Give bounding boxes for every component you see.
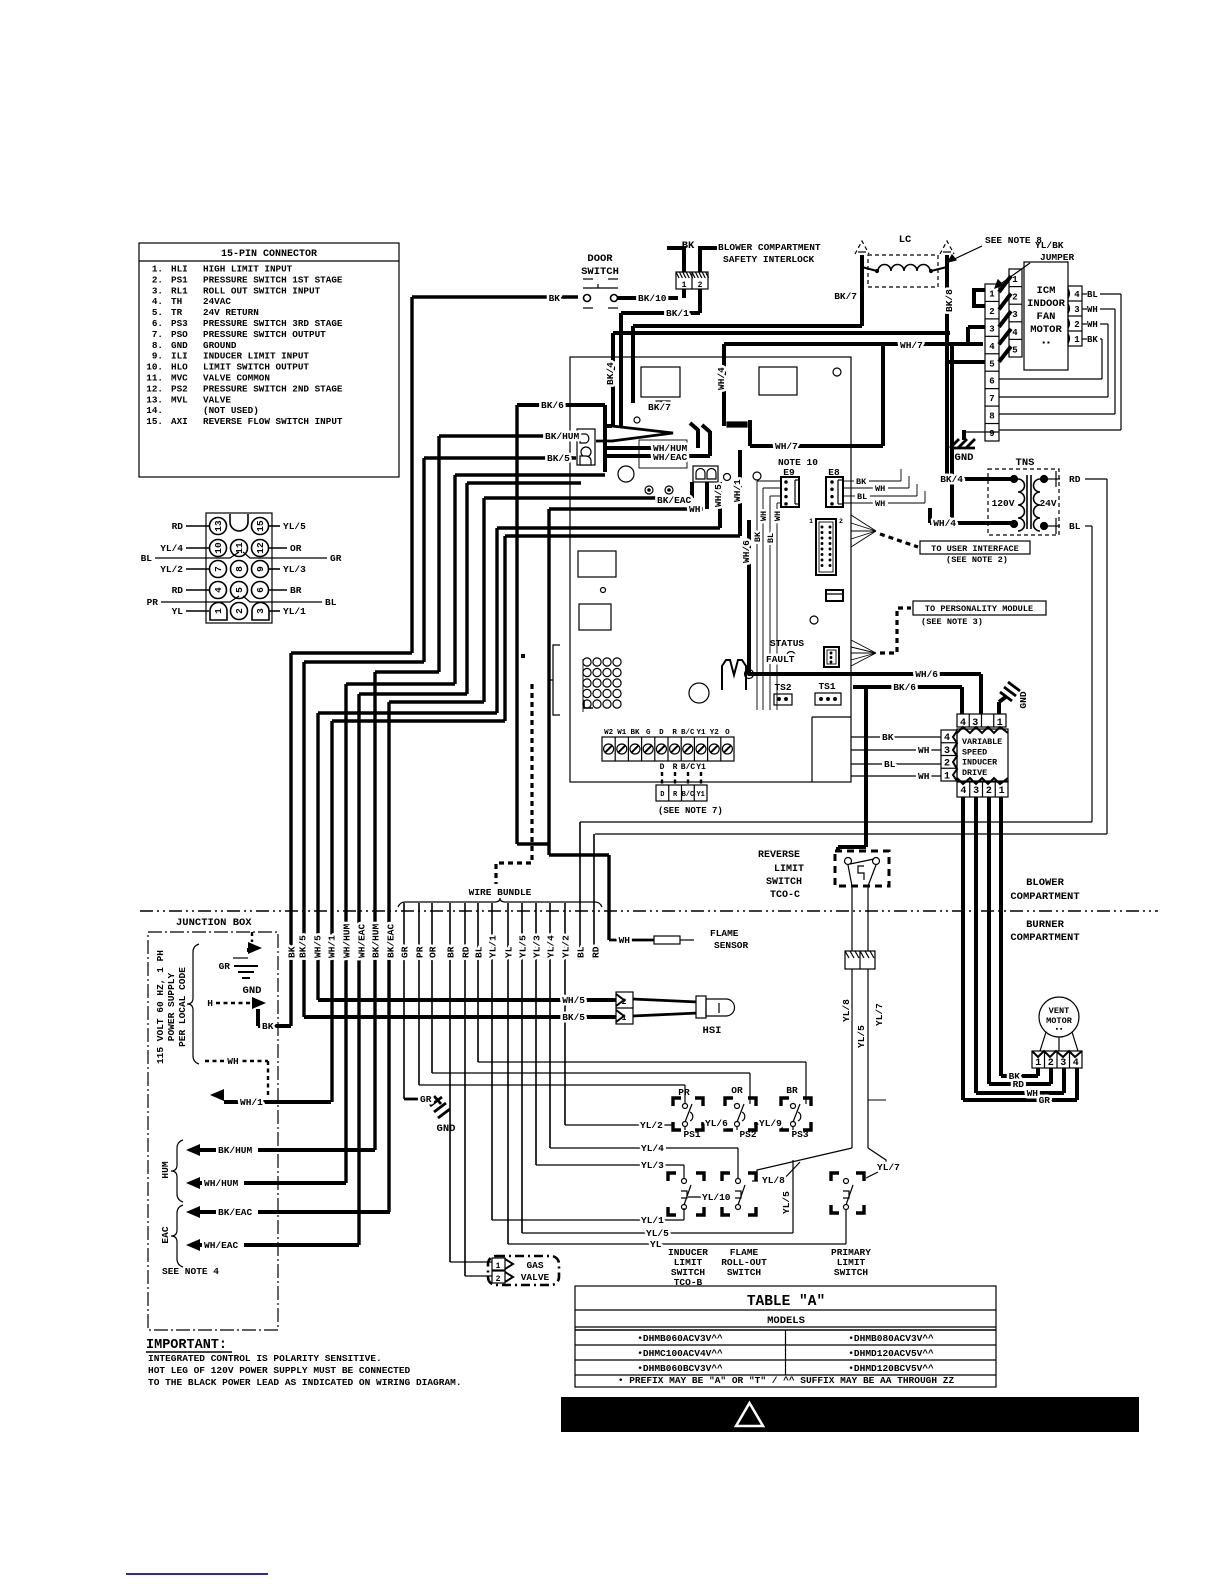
svg-text:WH/5: WH/5	[713, 484, 724, 507]
svg-text:TCO-C: TCO-C	[770, 890, 800, 901]
svg-text:WH/4: WH/4	[716, 367, 727, 390]
svg-text:•DHMC100ACV4V^^: •DHMC100ACV4V^^	[637, 1348, 723, 1359]
svg-text:TH: TH	[171, 296, 182, 307]
svg-text:WH: WH	[918, 745, 930, 756]
svg-text:GND: GND	[243, 985, 262, 997]
svg-text:YL/5: YL/5	[518, 935, 529, 958]
svg-text:GAS: GAS	[526, 1260, 543, 1271]
svg-text:SEE NOTE 4: SEE NOTE 4	[162, 1266, 219, 1277]
svg-text:1: 1	[682, 281, 687, 290]
svg-text:COMPARTMENT: COMPARTMENT	[1010, 932, 1079, 944]
svg-text:SWITCH: SWITCH	[581, 266, 619, 278]
svg-text:WH: WH	[773, 511, 783, 521]
svg-text:•DHMD120ACV5V^^: •DHMD120ACV5V^^	[848, 1348, 934, 1359]
svg-text:3: 3	[255, 608, 266, 614]
svg-text:WH/EAC: WH/EAC	[653, 452, 688, 463]
svg-text:GND: GND	[171, 340, 188, 351]
svg-text:SWITCH: SWITCH	[834, 1267, 869, 1278]
svg-text:HUM: HUM	[160, 1161, 171, 1178]
svg-text:WH/1: WH/1	[732, 479, 743, 502]
svg-text:FAULT: FAULT	[766, 654, 795, 665]
svg-text:13: 13	[213, 520, 224, 532]
svg-text:WH/1: WH/1	[327, 935, 338, 958]
svg-text:9: 9	[989, 429, 994, 439]
svg-text:▪▪: ▪▪	[1041, 339, 1051, 348]
svg-text:8: 8	[989, 412, 994, 422]
svg-text:YL/1: YL/1	[488, 935, 499, 958]
svg-text:PR: PR	[147, 597, 159, 608]
svg-text:BLOWER: BLOWER	[1026, 877, 1065, 889]
svg-text:WH/HUM: WH/HUM	[204, 1178, 239, 1189]
svg-text:(NOT USED): (NOT USED)	[203, 405, 259, 416]
svg-text:GND: GND	[955, 452, 974, 464]
svg-text:1: 1	[997, 718, 1003, 729]
svg-text:YL/7: YL/7	[877, 1162, 900, 1173]
svg-text:RD: RD	[172, 585, 184, 596]
svg-text:BK/EAC: BK/EAC	[657, 495, 692, 506]
svg-text:REVERSE FLOW SWITCH INPUT: REVERSE FLOW SWITCH INPUT	[203, 416, 343, 427]
svg-text:2: 2	[234, 608, 245, 614]
svg-text:(SEE NOTE 2): (SEE NOTE 2)	[946, 555, 1008, 565]
svg-text:PRESSURE SWITCH 3RD STAGE: PRESSURE SWITCH 3RD STAGE	[203, 318, 343, 329]
svg-text:VALVE: VALVE	[203, 394, 231, 405]
svg-text:4: 4	[960, 718, 966, 729]
svg-text:BL: BL	[576, 946, 587, 958]
svg-text:BK/5: BK/5	[562, 1012, 585, 1023]
svg-text:1.: 1.	[152, 264, 163, 275]
svg-text:GR: GR	[219, 961, 231, 972]
svg-text:BK/5: BK/5	[298, 935, 309, 958]
svg-text:YL/5: YL/5	[856, 1025, 867, 1048]
svg-text:YL/5: YL/5	[781, 1191, 792, 1214]
svg-text:24V RETURN: 24V RETURN	[203, 307, 259, 318]
svg-text:15-PIN CONNECTOR: 15-PIN CONNECTOR	[221, 249, 317, 260]
svg-text:BK/4: BK/4	[605, 362, 616, 385]
svg-text:LIMIT SWITCH OUTPUT: LIMIT SWITCH OUTPUT	[203, 362, 309, 373]
svg-text:B/C: B/C	[681, 729, 695, 737]
svg-text:YL/9: YL/9	[759, 1118, 782, 1129]
svg-text:6: 6	[255, 587, 266, 593]
svg-text:Y1: Y1	[696, 729, 706, 737]
svg-text:WH: WH	[875, 484, 885, 494]
svg-text:PR: PR	[678, 1087, 690, 1098]
svg-text:3: 3	[973, 786, 979, 797]
svg-text:YL/8: YL/8	[762, 1175, 785, 1186]
svg-text:GROUND: GROUND	[203, 340, 237, 351]
svg-text:24VAC: 24VAC	[203, 296, 231, 307]
svg-text:SEE NOTE 8: SEE NOTE 8	[985, 235, 1042, 246]
svg-text:4: 4	[1074, 290, 1080, 300]
svg-text:Y1: Y1	[696, 791, 704, 799]
svg-text:PS2: PS2	[171, 383, 188, 394]
svg-text:7: 7	[213, 566, 224, 572]
svg-text:YL/2: YL/2	[561, 935, 572, 958]
svg-text:COMPARTMENT: COMPARTMENT	[1010, 891, 1079, 903]
svg-text:GR: GR	[330, 553, 342, 564]
svg-text:BK: BK	[753, 531, 763, 542]
svg-text:120V: 120V	[992, 498, 1015, 509]
svg-text:WH/EAC: WH/EAC	[357, 923, 368, 958]
svg-text:YL/5: YL/5	[283, 521, 306, 532]
svg-text:PRESSURE SWITCH 2ND STAGE: PRESSURE SWITCH 2ND STAGE	[203, 383, 343, 394]
svg-text:D: D	[660, 791, 664, 799]
svg-text:GR: GR	[420, 1094, 432, 1105]
svg-text:VALVE: VALVE	[521, 1272, 550, 1283]
svg-text:3.: 3.	[152, 285, 163, 296]
svg-text:BK/EAC: BK/EAC	[386, 923, 397, 958]
svg-text:BL: BL	[325, 597, 337, 608]
svg-text:WH/7: WH/7	[900, 340, 923, 351]
svg-text:PRESSURE SWITCH OUTPUT: PRESSURE SWITCH OUTPUT	[203, 329, 326, 340]
svg-text:YL/3: YL/3	[641, 1160, 664, 1171]
svg-text:OR: OR	[731, 1085, 743, 1096]
svg-text:6.: 6.	[152, 318, 163, 329]
svg-text:BK/10: BK/10	[638, 293, 667, 304]
svg-text:WH/7: WH/7	[775, 441, 798, 452]
svg-text:PS1: PS1	[171, 274, 188, 285]
svg-text:YL/4: YL/4	[160, 543, 183, 554]
svg-text:TS2: TS2	[774, 682, 791, 693]
svg-text:BR: BR	[290, 585, 302, 596]
svg-text:HSI: HSI	[703, 1025, 722, 1037]
svg-text:BK: BK	[262, 1021, 274, 1032]
svg-text:4: 4	[989, 342, 995, 352]
svg-text:1: 1	[622, 1014, 627, 1023]
svg-text:TS1: TS1	[818, 681, 835, 692]
svg-text:5: 5	[234, 587, 245, 593]
svg-text:BL: BL	[766, 533, 776, 543]
svg-text:9.: 9.	[152, 351, 163, 362]
svg-text:PRESSURE SWITCH 1ST STAGE: PRESSURE SWITCH 1ST STAGE	[203, 274, 343, 285]
svg-text:ROLL OUT SWITCH INPUT: ROLL OUT SWITCH INPUT	[203, 285, 321, 296]
svg-text:BL: BL	[474, 946, 485, 958]
svg-text:YL/7: YL/7	[874, 1003, 885, 1026]
svg-text:WH/EAC: WH/EAC	[204, 1240, 239, 1251]
svg-text:INTEGRATED CONTROL IS POLARITY: INTEGRATED CONTROL IS POLARITY SENSITIVE…	[148, 1353, 382, 1364]
svg-text:BK: BK	[549, 293, 561, 304]
svg-text:2: 2	[989, 307, 994, 317]
svg-text:(SEE NOTE 3): (SEE NOTE 3)	[921, 617, 983, 627]
svg-text:WH/6: WH/6	[741, 540, 752, 563]
svg-text:BK: BK	[630, 729, 640, 737]
svg-text:MVL: MVL	[171, 394, 188, 405]
svg-text:FAN: FAN	[1037, 311, 1056, 323]
svg-text:Y1: Y1	[696, 763, 706, 772]
svg-text:JUMPER: JUMPER	[1040, 252, 1075, 263]
svg-text:BL: BL	[1087, 290, 1098, 300]
svg-text:4: 4	[1012, 328, 1018, 338]
svg-text:B/C: B/C	[682, 791, 695, 799]
svg-text:MOTOR: MOTOR	[1030, 324, 1062, 336]
svg-text:IMPORTANT:: IMPORTANT:	[146, 1338, 227, 1353]
svg-text:2: 2	[1012, 293, 1017, 303]
svg-text:WH: WH	[619, 935, 631, 946]
svg-text:WH: WH	[918, 771, 930, 782]
svg-text:PS2: PS2	[739, 1129, 756, 1140]
svg-text:2: 2	[698, 281, 703, 290]
svg-text:BR: BR	[446, 946, 457, 958]
svg-text:TO THE BLACK POWER LEAD AS IND: TO THE BLACK POWER LEAD AS INDICATED ON …	[148, 1377, 462, 1388]
svg-text:MODELS: MODELS	[767, 1315, 805, 1327]
svg-text:•DHMD120BCV5V^^: •DHMD120BCV5V^^	[848, 1363, 934, 1374]
svg-text:W2: W2	[604, 729, 614, 737]
svg-text:HLI: HLI	[171, 264, 188, 275]
svg-text:12.: 12.	[146, 383, 163, 394]
svg-text:1: 1	[999, 786, 1005, 797]
svg-text:TO USER INTERFACE: TO USER INTERFACE	[931, 544, 1019, 554]
svg-text:3: 3	[1060, 1058, 1066, 1069]
svg-text:BK/6: BK/6	[893, 682, 916, 693]
svg-text:4: 4	[960, 786, 966, 797]
svg-text:115 VOLT 60 HZ, 1 PH: 115 VOLT 60 HZ, 1 PH	[155, 950, 166, 1064]
svg-text:3: 3	[972, 718, 978, 729]
svg-text:GND: GND	[1018, 691, 1029, 708]
svg-text:BK: BK	[882, 732, 894, 743]
svg-text:BK/HUM: BK/HUM	[545, 431, 580, 442]
svg-text:BK/1: BK/1	[666, 308, 689, 319]
svg-text:3: 3	[1074, 305, 1079, 315]
svg-text:YL/2: YL/2	[160, 564, 183, 575]
svg-text:11: 11	[234, 542, 245, 554]
svg-text:JUNCTION BOX: JUNCTION BOX	[176, 917, 252, 929]
svg-text:HIGH LIMIT INPUT: HIGH LIMIT INPUT	[203, 264, 293, 275]
svg-text:15.: 15.	[146, 416, 163, 427]
svg-text:TCO-B: TCO-B	[674, 1277, 703, 1288]
svg-text:YL/3: YL/3	[283, 564, 306, 575]
svg-text:YL: YL	[172, 606, 184, 617]
svg-text:GR: GR	[1039, 1095, 1051, 1106]
svg-text:BL: BL	[141, 553, 153, 564]
svg-text:TR: TR	[171, 307, 183, 318]
svg-text:WH/6: WH/6	[915, 669, 938, 680]
svg-text:SAFETY INTERLOCK: SAFETY INTERLOCK	[723, 254, 815, 265]
svg-text:YL/2: YL/2	[640, 1120, 663, 1131]
svg-text:RD: RD	[591, 946, 602, 958]
svg-text:WH/HUM: WH/HUM	[342, 923, 353, 958]
svg-text:HLO: HLO	[171, 362, 188, 373]
svg-text:2: 2	[1048, 1058, 1054, 1069]
svg-text:8: 8	[234, 566, 245, 572]
svg-text:E9: E9	[783, 467, 795, 478]
svg-text:SENSOR: SENSOR	[714, 940, 749, 951]
svg-text:D: D	[659, 729, 664, 737]
svg-text:15: 15	[255, 520, 266, 532]
svg-text:1: 1	[496, 1262, 501, 1271]
svg-text:BK/4: BK/4	[940, 474, 963, 485]
svg-text:3: 3	[1012, 310, 1017, 320]
svg-text:VARIABLE: VARIABLE	[962, 737, 1002, 747]
svg-text:1: 1	[213, 608, 224, 614]
svg-text:EAC: EAC	[160, 1226, 171, 1243]
svg-text:PS1: PS1	[683, 1129, 700, 1140]
svg-text:YL/3: YL/3	[532, 935, 543, 958]
svg-text:STATUS: STATUS	[770, 638, 805, 649]
svg-text:HOT LEG OF 120V POWER SUPPLY M: HOT LEG OF 120V POWER SUPPLY MUST BE CON…	[148, 1365, 411, 1376]
svg-text:BK: BK	[856, 477, 867, 487]
svg-text:BR: BR	[786, 1085, 798, 1096]
svg-text:AXI: AXI	[171, 416, 188, 427]
svg-text:LIMIT: LIMIT	[774, 864, 804, 875]
svg-text:YL: YL	[650, 1239, 662, 1250]
svg-text:2: 2	[622, 998, 627, 1007]
svg-text:MOTOR: MOTOR	[1046, 1016, 1073, 1026]
svg-text:YL: YL	[504, 946, 515, 958]
svg-text:INDOOR: INDOOR	[1027, 298, 1066, 310]
svg-text:YL/4: YL/4	[546, 935, 557, 958]
svg-text:•DHMB060BCV3V^^: •DHMB060BCV3V^^	[637, 1363, 723, 1374]
svg-text:WH: WH	[759, 511, 769, 521]
svg-text:E8: E8	[828, 467, 840, 478]
svg-text:DOOR: DOOR	[587, 253, 613, 265]
svg-text:2: 2	[986, 786, 992, 797]
svg-text:5.: 5.	[152, 307, 163, 318]
svg-text:WH: WH	[227, 1056, 239, 1067]
svg-text:GND: GND	[437, 1123, 456, 1135]
svg-text:YL/BK: YL/BK	[1035, 240, 1064, 251]
svg-text:BK/HUM: BK/HUM	[371, 923, 382, 958]
svg-text:WH: WH	[1087, 320, 1098, 330]
svg-text:2: 2	[944, 759, 950, 770]
svg-text:BL: BL	[1069, 521, 1081, 532]
svg-text:BLOWER COMPARTMENT: BLOWER COMPARTMENT	[718, 242, 821, 253]
svg-text:BK/EAC: BK/EAC	[218, 1207, 253, 1218]
svg-text:9: 9	[255, 566, 266, 572]
svg-text:5: 5	[989, 359, 994, 369]
svg-text:MVC: MVC	[171, 373, 188, 384]
svg-text:B/C: B/C	[681, 763, 696, 772]
svg-text:TNS: TNS	[1016, 457, 1035, 469]
svg-text:2: 2	[496, 1275, 501, 1284]
svg-text:1: 1	[1074, 335, 1080, 345]
svg-text:BL: BL	[884, 759, 896, 770]
svg-text:2: 2	[839, 518, 843, 525]
svg-text:REVERSE: REVERSE	[758, 850, 800, 861]
svg-text:ICM: ICM	[1037, 285, 1056, 297]
svg-text:R: R	[673, 763, 678, 772]
svg-text:3: 3	[944, 746, 950, 757]
svg-text:BK: BK	[682, 240, 695, 252]
svg-text:WH: WH	[1027, 1088, 1039, 1099]
svg-text:OR: OR	[290, 543, 302, 554]
svg-text:LC: LC	[899, 234, 912, 246]
svg-text:1: 1	[989, 290, 995, 300]
svg-text:PSO: PSO	[171, 329, 188, 340]
svg-text:10.: 10.	[146, 362, 163, 373]
svg-text:RL1: RL1	[171, 285, 188, 296]
svg-text:WH/4: WH/4	[933, 518, 956, 529]
svg-text:RD: RD	[461, 946, 472, 958]
svg-text:11.: 11.	[146, 373, 163, 384]
svg-text:BL: BL	[857, 492, 867, 502]
svg-text:RD: RD	[1069, 474, 1081, 485]
svg-text:WIRE BUNDLE: WIRE BUNDLE	[469, 887, 532, 898]
svg-text:8.: 8.	[152, 340, 163, 351]
svg-text:7: 7	[989, 394, 994, 404]
svg-text:1: 1	[944, 771, 950, 782]
svg-text:13.: 13.	[146, 394, 163, 405]
svg-text:2: 2	[1074, 320, 1079, 330]
svg-text:1: 1	[1035, 1058, 1041, 1069]
svg-text:H: H	[207, 998, 213, 1009]
svg-text:W1: W1	[617, 729, 627, 737]
svg-text:O: O	[725, 729, 730, 737]
svg-text:1: 1	[809, 518, 813, 525]
svg-text:4.: 4.	[152, 296, 163, 307]
svg-text:12: 12	[255, 542, 266, 554]
svg-text:(SEE NOTE 7): (SEE NOTE 7)	[658, 806, 723, 816]
svg-text:BK: BK	[1087, 335, 1098, 345]
svg-text:5: 5	[1012, 345, 1017, 355]
svg-text:SWITCH: SWITCH	[727, 1267, 762, 1278]
svg-text:BK/7: BK/7	[648, 402, 671, 413]
svg-text:ILI: ILI	[171, 351, 188, 362]
svg-text:WH: WH	[875, 499, 885, 509]
svg-text:BK/8: BK/8	[944, 289, 955, 312]
svg-text:WH/5: WH/5	[313, 935, 324, 958]
svg-text:FLAME: FLAME	[710, 928, 739, 939]
svg-text:R: R	[672, 729, 677, 737]
svg-text:RD: RD	[1013, 1079, 1025, 1090]
svg-text:GR: GR	[400, 946, 411, 958]
svg-text:WH/1: WH/1	[240, 1097, 263, 1108]
svg-text:2.: 2.	[152, 274, 163, 285]
svg-text:YL/1: YL/1	[641, 1215, 664, 1226]
svg-text:PR: PR	[415, 946, 426, 958]
svg-text:SPEED: SPEED	[962, 747, 987, 757]
svg-text:PER LOCAL CODE: PER LOCAL CODE	[177, 967, 188, 1047]
svg-text:D: D	[660, 763, 665, 772]
svg-text:▪▪: ▪▪	[1055, 1026, 1063, 1034]
svg-text:POWER SUPPLY: POWER SUPPLY	[166, 973, 177, 1042]
svg-text:VENT: VENT	[1049, 1006, 1070, 1016]
svg-text:4: 4	[944, 733, 950, 744]
svg-text:7.: 7.	[152, 329, 163, 340]
svg-text:24V: 24V	[1039, 498, 1056, 509]
svg-text:TO PERSONALITY MODULE: TO PERSONALITY MODULE	[925, 604, 1033, 614]
svg-text:BURNER: BURNER	[1026, 919, 1065, 931]
svg-text:BK/6: BK/6	[541, 400, 564, 411]
svg-text:•DHMB080ACV3V^^: •DHMB080ACV3V^^	[848, 1333, 934, 1344]
svg-text:RD: RD	[172, 521, 184, 532]
svg-text:YL/1: YL/1	[283, 606, 306, 617]
svg-text:1: 1	[1012, 275, 1018, 285]
svg-text:VALVE COMMON: VALVE COMMON	[203, 373, 270, 384]
svg-text:PS3: PS3	[791, 1129, 808, 1140]
svg-text:4: 4	[1073, 1058, 1079, 1069]
svg-text:PS3: PS3	[171, 318, 188, 329]
svg-text:YL/6: YL/6	[705, 1118, 728, 1129]
svg-text:• PREFIX MAY BE "A" OR "T" / ^: • PREFIX MAY BE "A" OR "T" / ^^ SUFFIX M…	[618, 1375, 955, 1386]
svg-text:14.: 14.	[146, 405, 163, 416]
svg-text:INDUCER LIMIT INPUT: INDUCER LIMIT INPUT	[203, 351, 309, 362]
svg-text:BK/7: BK/7	[834, 291, 857, 302]
svg-text:G: G	[646, 729, 651, 737]
svg-text:SWITCH: SWITCH	[766, 877, 802, 888]
svg-text:INDUCER: INDUCER	[962, 758, 998, 768]
svg-text:OR: OR	[428, 946, 439, 958]
svg-text:BK/5: BK/5	[547, 453, 570, 464]
svg-text:10: 10	[213, 542, 224, 554]
svg-text:YL/10: YL/10	[702, 1192, 731, 1203]
svg-text:WH: WH	[1087, 305, 1098, 315]
svg-text:YL/8: YL/8	[841, 999, 852, 1022]
svg-text:DRIVE: DRIVE	[962, 768, 987, 778]
svg-text:BK/HUM: BK/HUM	[218, 1145, 253, 1156]
svg-text:YL/5: YL/5	[646, 1228, 669, 1239]
svg-text:WH/5: WH/5	[562, 995, 585, 1006]
svg-text:WH: WH	[689, 504, 701, 515]
svg-text:TABLE "A": TABLE "A"	[747, 1294, 825, 1310]
